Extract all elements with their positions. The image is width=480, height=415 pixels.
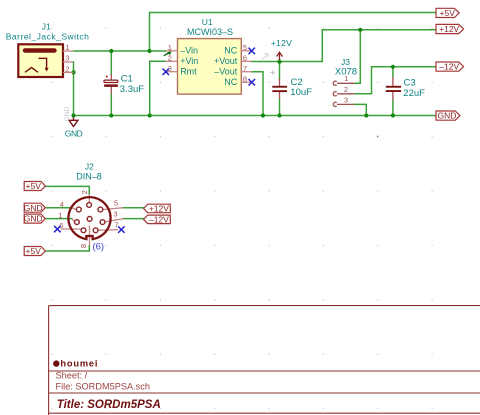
svg-text:2: 2 xyxy=(344,85,348,94)
svg-text:–Vout: –Vout xyxy=(214,67,238,77)
svg-text:+12V: +12V xyxy=(149,204,169,214)
svg-text:GND: GND xyxy=(438,111,457,121)
svg-text:1: 1 xyxy=(344,74,348,83)
svg-text:2: 2 xyxy=(65,64,69,73)
svg-text:–Vin: –Vin xyxy=(180,46,198,56)
svg-text:C1: C1 xyxy=(121,74,133,85)
svg-text:Rmt: Rmt xyxy=(180,67,197,77)
svg-text:Barrel_Jack_Switch: Barrel_Jack_Switch xyxy=(6,31,90,41)
svg-text:+12V: +12V xyxy=(271,38,292,48)
svg-text:+Vout: +Vout xyxy=(214,56,238,66)
svg-text:1: 1 xyxy=(65,43,69,52)
svg-text:2: 2 xyxy=(80,190,89,194)
svg-text:GND: GND xyxy=(24,214,43,224)
svg-text:GND: GND xyxy=(65,128,83,138)
svg-text:7: 7 xyxy=(114,220,118,229)
svg-text:–12V: –12V xyxy=(439,62,459,72)
svg-text:–12V: –12V xyxy=(149,215,169,225)
svg-text:+12V: +12V xyxy=(439,24,459,34)
svg-text:3: 3 xyxy=(344,95,348,104)
svg-text:File: SORDM5PSA.sch: File: SORDM5PSA.sch xyxy=(56,381,150,391)
svg-text:3: 3 xyxy=(65,54,69,63)
svg-text:5: 5 xyxy=(243,43,247,52)
svg-text:U1: U1 xyxy=(202,17,213,27)
svg-text:DIN–8: DIN–8 xyxy=(76,171,102,181)
svg-text:+5V: +5V xyxy=(26,246,42,256)
svg-text:7: 7 xyxy=(243,64,247,73)
svg-text:22uF: 22uF xyxy=(403,88,425,99)
svg-text:houmei: houmei xyxy=(60,359,98,369)
svg-text:+Vin: +Vin xyxy=(180,56,198,66)
svg-text:MCWI03–S: MCWI03–S xyxy=(187,27,233,37)
svg-text:8: 8 xyxy=(79,244,88,248)
svg-text:NC: NC xyxy=(224,46,237,56)
svg-text:J2: J2 xyxy=(85,162,94,172)
svg-text:Sheet: /: Sheet: / xyxy=(56,371,88,381)
svg-text:C3: C3 xyxy=(404,78,416,89)
svg-text:8: 8 xyxy=(243,74,247,83)
svg-text:1: 1 xyxy=(58,211,62,220)
svg-text:3.3uF: 3.3uF xyxy=(120,84,144,95)
svg-text:GND: GND xyxy=(24,203,43,213)
svg-text:+5V: +5V xyxy=(26,181,42,191)
svg-text:GND: GND xyxy=(64,106,71,121)
svg-text:J3: J3 xyxy=(341,57,350,67)
svg-text:NC: NC xyxy=(224,77,237,87)
svg-text:(6): (6) xyxy=(92,241,104,252)
svg-text:Title: SORDm5PSA: Title: SORDm5PSA xyxy=(57,399,161,411)
svg-text:10uF: 10uF xyxy=(290,87,312,98)
svg-text:3: 3 xyxy=(113,210,117,219)
svg-text:+5V: +5V xyxy=(440,8,456,18)
svg-text:J1: J1 xyxy=(42,22,51,32)
svg-text:5: 5 xyxy=(114,199,118,208)
svg-text:4: 4 xyxy=(60,200,64,209)
svg-text:6: 6 xyxy=(243,54,247,63)
svg-text:1: 1 xyxy=(168,43,172,52)
